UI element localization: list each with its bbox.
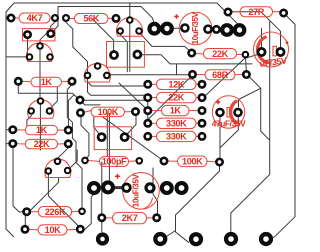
pad Q2 br: [135, 27, 143, 35]
pad rect2 left: [109, 50, 119, 60]
capacitor 100pF lead right: [129, 160, 137, 163]
transistor Q4 outline: [28, 100, 54, 118]
pad out0: [96, 232, 109, 245]
svg-text:4K7: 4K7: [27, 13, 43, 23]
svg-text:330K: 330K: [166, 118, 187, 128]
wire pad to second bus: [54, 26, 58, 30]
pad 22K-row right: [64, 139, 73, 148]
pad 100K-a left: [76, 108, 85, 117]
resistor 1K-row lead left: [16, 129, 25, 131]
capacitor 220uF plus: [286, 41, 289, 44]
pad rect1 left: [23, 30, 32, 39]
svg-text:330K: 330K: [166, 132, 187, 142]
pad Q5 br: [64, 167, 72, 175]
pad 10uF-b right: [144, 182, 155, 193]
resistor 68R lead right: [235, 74, 244, 76]
wire 220uF left pad stub up: [261, 29, 263, 48]
wire horizontal bus to 68R-left: [111, 74, 189, 76]
wire bottom pad1 stub: [165, 231, 176, 238]
wire diag Q2br to stack row3 pad: [119, 83, 148, 110]
pad 220uF left: [257, 47, 267, 57]
pad 68R left: [188, 70, 197, 79]
resistor 1K row3 lead right: [189, 110, 199, 112]
board outline left+top: [6, 3, 217, 229]
wire Q2 top pad from board: [129, 3, 131, 17]
svg-text:56K: 56K: [83, 14, 99, 24]
wire 1K-a right zigzag to 226K right pad: [67, 85, 82, 208]
wire 220uF-left pad to stack row2 right pad: [206, 54, 260, 96]
resistor 330K row5 lead right: [196, 135, 199, 137]
pad rect3 right: [120, 132, 130, 142]
pad Q1 br: [46, 53, 54, 61]
wire second top bus: [58, 7, 154, 27]
wire 47uF-right pad join: [220, 118, 238, 148]
resistor 22K row2: [157, 92, 197, 102]
wire rect1 left pad down: [27, 39, 29, 57]
resistor 56K lead right: [108, 17, 114, 19]
resistor 330K row4: [157, 118, 197, 128]
pad Q2 top: [126, 16, 134, 24]
resistor 226K lead left: [29, 211, 38, 213]
resistor 100K-b lead right: [207, 160, 217, 163]
wire thick link mid2 to 10uF-b left pad: [112, 186, 123, 189]
pad rect1 right: [46, 29, 55, 38]
wire 10uF-b right to 2K7 right pad: [153, 168, 158, 214]
svg-text:2K7: 2K7: [122, 213, 138, 223]
capacitor 10uF-b outline: [123, 173, 160, 210]
pad 12K row1 right: [198, 80, 207, 89]
pad 22K-tr left: [187, 49, 196, 58]
wire branch down to 1K-row right pad: [68, 95, 74, 126]
pad Q4 bl: [27, 107, 35, 115]
wire 1K-a left pad L to horizontal: [18, 85, 100, 105]
pad rect2 right: [133, 50, 143, 60]
resistor 27R lead left: [231, 11, 240, 13]
pad Q1 bl: [26, 53, 34, 61]
resistor 10K: [38, 225, 67, 235]
svg-text:22K: 22K: [212, 49, 228, 59]
pad 47uF right: [233, 108, 243, 118]
resistor 2K7 lead right: [147, 217, 154, 219]
resistor 22K-row: [25, 139, 57, 149]
red connector rect2: [107, 42, 145, 68]
wire Q3 br pad up: [50, 87, 57, 109]
wire big pad to 10K right pad: [84, 194, 95, 229]
capacitor 100pF lead left: [88, 160, 100, 163]
resistor 1K row3 lead left: [151, 110, 162, 112]
pad 12K row1 left: [143, 80, 152, 89]
wire 22K-row right pad to Q4 top pad: [58, 148, 69, 158]
resistor 330K row5 lead left: [151, 135, 157, 137]
wire rect3 right pad diag to 100K-a right pad: [127, 116, 137, 135]
pad 2K7 right: [152, 213, 161, 222]
resistor 56K lead left: [69, 17, 75, 19]
wire pad chain row1: [167, 27, 185, 30]
pad 68R right: [242, 70, 251, 79]
wire vertical through rect3 second: [106, 114, 108, 157]
svg-text:47uF/35V: 47uF/35V: [212, 119, 246, 129]
pad Q5 bl: [45, 167, 53, 175]
resistor 22K-tr lead left: [195, 53, 204, 56]
resistor 68R: [205, 70, 235, 80]
wire stepped bus branch to 68R bus: [176, 64, 178, 75]
wire border to Q1 bl pad: [7, 56, 27, 58]
pad power1: [147, 22, 161, 36]
svg-text:100K: 100K: [98, 107, 119, 117]
resistor 2K7: [113, 212, 147, 223]
capacitor 100pF: [100, 157, 129, 167]
pad 22K row2 left: [143, 93, 152, 102]
wire pad chain row1 right: [208, 28, 227, 31]
pad 1K-a right: [68, 77, 77, 86]
resistor 1K-row: [25, 125, 57, 135]
wire rect1 right pad diag: [40, 34, 46, 43]
pad Q3 br: [103, 72, 111, 80]
wire rect2 right pad stepped bus: [142, 55, 252, 64]
transistor Q3 outline: [84, 64, 110, 82]
capacitor 47uF plus: [216, 100, 221, 105]
pad Q2 bl: [116, 27, 124, 35]
transistor Q1 outline: [27, 43, 53, 61]
wire top bus diag to power pad4: [217, 3, 240, 26]
svg-text:1K: 1K: [41, 77, 53, 87]
wire diag into rect2 pad: [93, 20, 114, 51]
resistor 68R lead left: [195, 74, 205, 76]
capacitor 220uF polarity bar: [273, 46, 277, 56]
wire Q4 top vertical through resistors: [39, 104, 41, 150]
pad power4: [233, 23, 247, 37]
resistor 4K7 lead right: [50, 17, 53, 19]
pad 56K right: [112, 14, 121, 23]
pad mid1: [87, 181, 101, 195]
resistor 330K row4 lead right: [196, 122, 199, 124]
pad 100K-a right: [131, 107, 140, 116]
wire 68R-left pad to stack row4 pad: [148, 78, 190, 120]
pad node B: [62, 14, 70, 22]
wire Q2-br pad to 22K-tr left pad: [141, 34, 191, 52]
pad 330K row4 right: [198, 119, 207, 128]
svg-text:22K: 22K: [34, 139, 50, 149]
resistor 100K-b: [178, 156, 208, 167]
resistor 27R: [240, 7, 273, 17]
pad Q4 br: [46, 107, 54, 115]
pad 27R left: [224, 8, 233, 17]
wire Q1 top pad long vertical to Q4 top: [39, 50, 41, 97]
red connector rect3: [94, 127, 131, 150]
wire 68R-right pad down to bottom pad3: [249, 76, 270, 140]
resistor 12K row1: [157, 79, 197, 89]
capacitor 10uF-b lead arc: [144, 198, 153, 209]
resistor 22K-row lead left: [16, 143, 25, 145]
wire Q4 br pad up: [70, 150, 77, 168]
resistor 22K-row lead right: [58, 143, 66, 145]
pad 100K-b right: [215, 158, 224, 167]
wire vertical through rect3 to big pad: [108, 114, 110, 183]
resistor 10K lead right: [67, 228, 78, 231]
red connector rect1: [23, 29, 56, 41]
pad 10uF-b left: [121, 183, 131, 193]
wire Q2 bl pad down: [120, 35, 127, 72]
wire branch to 47uF right pad: [239, 88, 261, 107]
resistor 1K-a: [31, 77, 62, 87]
resistor 12K row1 lead right: [196, 83, 199, 85]
resistor 100K-a lead right: [125, 111, 133, 113]
svg-text:226K: 226K: [45, 207, 66, 217]
wire stack row2-row3 link: [147, 101, 149, 107]
svg-text:12K: 12K: [168, 79, 184, 89]
pad node C: [212, 25, 221, 34]
wire horizontal y95 to stack row2 pad: [88, 80, 147, 97]
pad 27R right: [279, 9, 288, 18]
capacitor 47uF polarity bar: [227, 108, 231, 118]
wire transistor Q2 top bus: [129, 24, 131, 72]
wire stack row3-row4 link: [147, 115, 149, 120]
wire 2K7 left pad to big pad: [101, 222, 103, 232]
pad 1K row3 left: [143, 106, 152, 115]
pad Q4 top: [37, 97, 45, 105]
pad rect3 left: [97, 132, 107, 142]
resistor 226K lead right: [72, 210, 80, 212]
pad 226K left: [22, 207, 31, 216]
wire 27R-left pad to 220uF plus pad: [230, 12, 281, 48]
capacitor 47uF stripe: [231, 101, 236, 122]
wire 100K-b right pad to bottom pad2: [176, 166, 220, 242]
capacitor 47uF outline: [212, 96, 244, 128]
wire 100pF area down to 2K7 left pad: [101, 162, 103, 214]
pad 330K row5 right: [198, 132, 207, 141]
resistor 2K7 lead left: [105, 217, 113, 219]
resistor 22K row2 lead right: [196, 97, 199, 99]
wire pad 56K area down to Q3 bl: [66, 22, 88, 71]
pad 100pF left: [81, 157, 89, 165]
resistor 4K7 lead left: [15, 17, 20, 19]
resistor 22K row2 lead left: [151, 97, 157, 99]
pad 330K row5 left: [143, 132, 152, 141]
wire long right vertical to bottom pad3: [231, 21, 270, 236]
pad 22K-row left: [8, 139, 17, 148]
capacitor 10uF-a plus: [174, 14, 179, 19]
wire border stub to 1K-row left pad: [6, 129, 9, 131]
pad 220uF right: [276, 47, 286, 57]
resistor 56K: [75, 14, 109, 24]
pad 4K7 left: [7, 14, 16, 23]
pad out1: [153, 232, 167, 246]
resistor 1K-a lead right: [62, 80, 70, 83]
pad node A: [51, 14, 59, 22]
pad 2K7 left: [97, 213, 106, 222]
pad 1K row3 right: [198, 106, 207, 115]
resistor 330K row4 lead left: [151, 122, 157, 124]
wire 47uF-left pad to 100K-b right pad: [219, 118, 221, 158]
resistor 1K-row lead right: [58, 129, 66, 131]
svg-text:1K: 1K: [170, 106, 182, 116]
pad mid4: [175, 181, 189, 195]
transistor Q2 outline: [117, 18, 143, 36]
wire 27R-right pad to bottom pad4: [269, 15, 295, 239]
resistor 226K: [38, 207, 71, 217]
capacitor 220uF outline: [254, 32, 289, 67]
pad node D: [76, 96, 85, 105]
wire Q3 bl pad down: [27, 116, 32, 126]
svg-text:10K: 10K: [45, 225, 61, 235]
wire diag to 100K-b left pad: [102, 117, 163, 161]
capacitor 220uF stripe: [258, 37, 268, 62]
resistor 100K-a: [91, 107, 125, 117]
wire horizontal y86 to stack row1 pad: [89, 83, 146, 86]
svg-text:10uF/35V: 10uF/35V: [132, 173, 141, 207]
svg-text:10uF/35V: 10uF/35V: [191, 11, 200, 44]
wire border stub to 22K-row left pad: [6, 143, 9, 145]
pad power3: [220, 23, 234, 37]
resistor 27R lead right: [273, 11, 282, 13]
resistor 100K-b lead left: [167, 160, 178, 162]
resistor 4K7: [19, 13, 50, 23]
resistor 1K row3: [162, 105, 190, 115]
pad Q1 top: [36, 42, 44, 50]
transistor Q5 outline: [45, 159, 71, 177]
pad power2: [160, 22, 174, 36]
capacitor 10uF-a outline: [179, 12, 212, 45]
wire Q4 bl pad to 10K right pad: [48, 175, 80, 228]
pad Q5 top: [54, 158, 62, 166]
svg-text:100pF: 100pF: [102, 157, 127, 167]
pad 1K-row left: [8, 125, 17, 134]
pad 100pF right: [136, 157, 144, 165]
resistor 100K-a lead left: [83, 111, 91, 113]
pad 1K-a left: [14, 77, 23, 86]
wire rect3 left pad diag up: [94, 117, 100, 135]
pad 10uF-a right: [203, 24, 213, 34]
pad Q3 bl: [84, 72, 92, 80]
wire pad to rect1 right pad: [51, 22, 55, 30]
pad 22K row2 right: [198, 93, 207, 102]
pad 226K right: [78, 208, 86, 216]
pad 330K row4 left: [143, 119, 152, 128]
svg-text:100K: 100K: [182, 156, 203, 166]
pad 22K-tr right: [242, 51, 250, 59]
pad 47uF left: [215, 108, 225, 118]
resistor 1K-a lead left: [21, 80, 31, 83]
pad mid3: [160, 181, 174, 195]
wire pads bus y100: [84, 99, 149, 101]
pad mid2: [101, 180, 115, 194]
pad out2: [189, 232, 203, 246]
svg-text:27R: 27R: [248, 7, 264, 17]
board outline bottom-left chamfer: [6, 229, 14, 237]
pad Q3 top: [94, 62, 102, 70]
pad 1K-row right: [64, 126, 73, 135]
wire 22K-left pad down to 226K left pad: [13, 148, 23, 212]
wire 22K-tr right pad to 68R right pad: [245, 59, 248, 71]
resistor 330K row5: [157, 131, 197, 141]
resistor 12K row1 lead left: [151, 83, 157, 85]
resistor 22K-tr lead right: [237, 53, 244, 55]
svg-text:22K: 22K: [168, 93, 184, 103]
pad 100K-b left: [160, 157, 169, 166]
pad out3: [224, 232, 238, 246]
pad 10K left: [21, 225, 30, 234]
pad out4: [259, 232, 273, 246]
svg-text:1K: 1K: [36, 125, 48, 135]
resistor 10K lead left: [28, 228, 38, 231]
resistor 22K-tr: [204, 49, 237, 59]
wire Q4 down to 10K left pad: [25, 178, 58, 226]
pad 10uF-a left: [180, 23, 190, 33]
pad 10K right: [76, 225, 85, 234]
wire 100K-a left pad down to 100pF left pad: [81, 117, 89, 159]
svg-text:68R: 68R: [212, 70, 228, 80]
capacitor 10uF-b plus: [115, 174, 120, 179]
